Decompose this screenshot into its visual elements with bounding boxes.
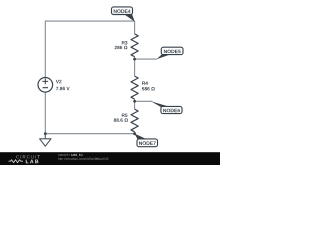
value 88.6 ohm (114, 118, 128, 121)
wire: V2 bottom to ground junction (44, 92, 46, 133)
resistor R5 (131, 109, 138, 132)
junction bottom right (133, 132, 136, 135)
value 7.86 V (56, 87, 70, 90)
node NODE6 callout (151, 101, 171, 107)
junction bottom left (44, 132, 47, 135)
junction R4/R5 (133, 100, 136, 103)
label R5 (122, 114, 128, 117)
wire: leader to NODE5 (135, 58, 157, 60)
resistor R3 (131, 34, 138, 57)
wire: R5 bottom to bottom junction (134, 132, 136, 134)
node NODE5 callout (157, 54, 171, 59)
footer logo CIRCUIT (16, 155, 40, 158)
voltage source V2 (38, 78, 53, 93)
node NODE4 callout (123, 14, 135, 22)
wire: bottom horizontal (45, 133, 134, 135)
value 286 ohm (115, 46, 128, 49)
wire: right vertical above R3 (134, 21, 136, 34)
resistor R4 (131, 76, 138, 99)
wire: left vertical + top horizontal (45, 21, 134, 77)
junction R3/R4 (133, 58, 136, 61)
footer logo LAB (26, 160, 39, 164)
wire: leader to NODE6 (135, 100, 153, 102)
label R4 (142, 82, 148, 85)
footer bar (0, 152, 220, 165)
label V2 (56, 80, 62, 83)
wire: R4 bottom to R5 top (134, 99, 136, 109)
value 586 ohm (142, 87, 155, 90)
ground (40, 134, 51, 147)
node NODE7 callout (134, 134, 147, 140)
footer url line (58, 158, 108, 161)
label R3 (122, 41, 128, 45)
footer logo zigzag (9, 160, 24, 163)
wire: R3 bottom to R4 top (134, 57, 136, 76)
footer credit line (58, 154, 70, 156)
